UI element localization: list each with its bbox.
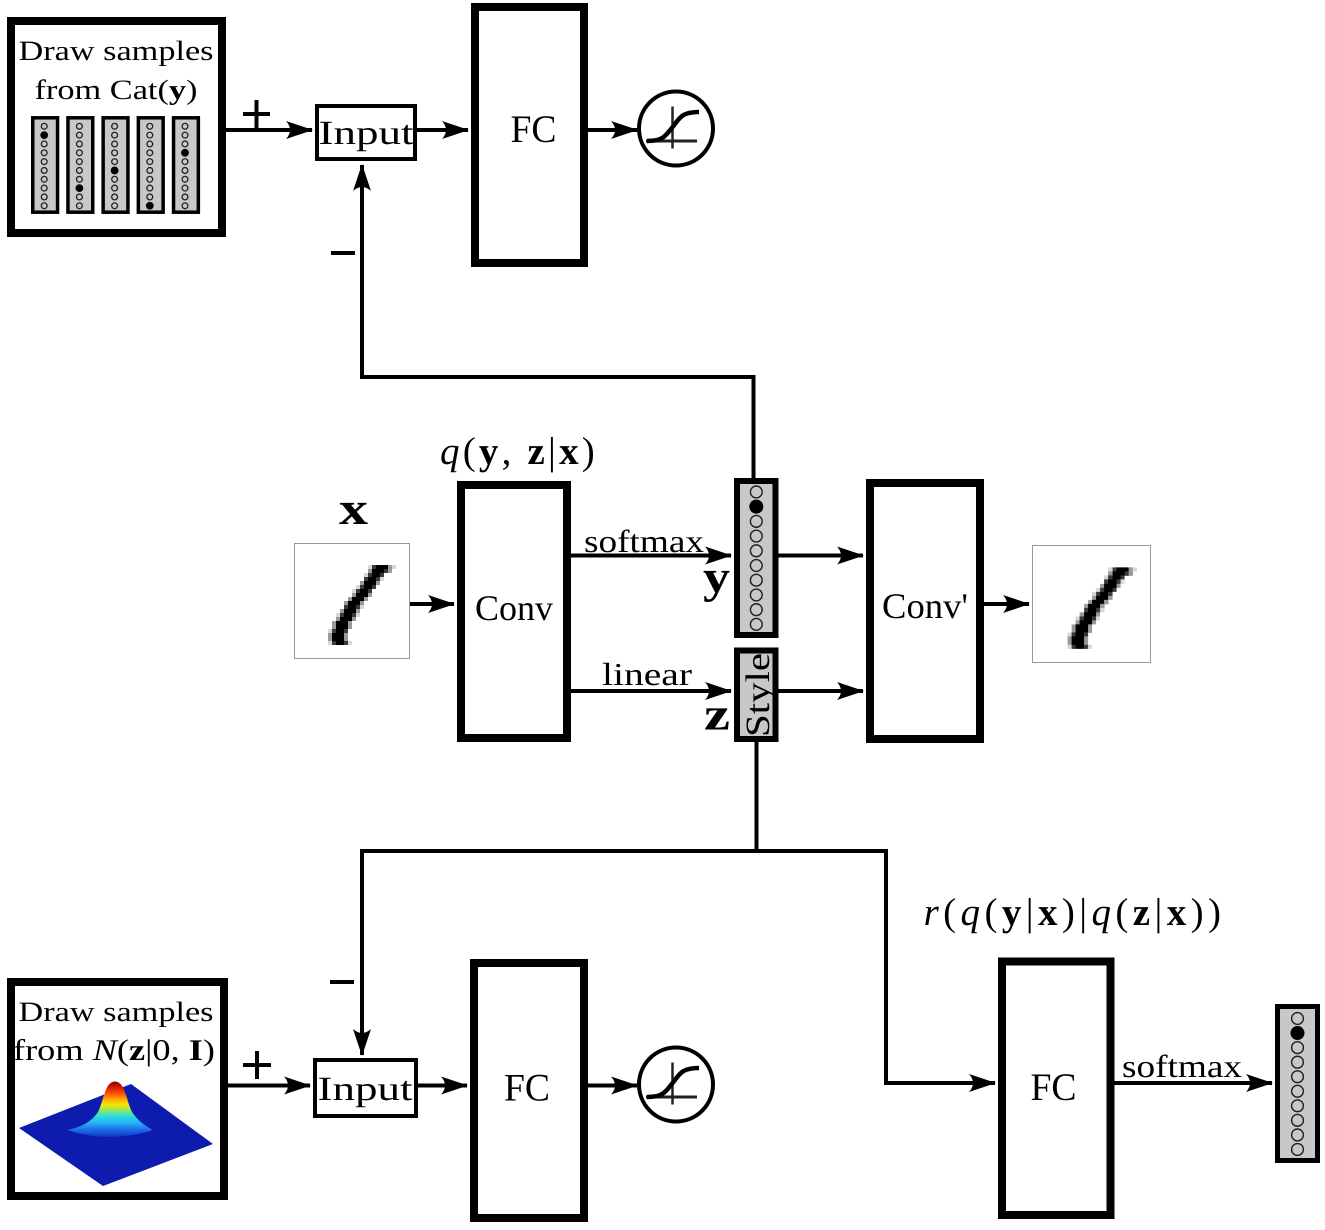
svg-text:FC: FC (504, 1067, 550, 1110)
svg-text:Conv: Conv (475, 588, 553, 628)
svg-text:Conv': Conv' (882, 586, 968, 626)
svg-text:Draw samples: Draw samples (19, 997, 214, 1028)
svg-text:q(y, z|x): q(y, z|x) (440, 430, 598, 473)
svg-text:Draw samples: Draw samples (19, 36, 214, 67)
svg-text:softmax: softmax (1122, 1048, 1242, 1084)
svg-text:r(q(y|x)|q(z|x)): r(q(y|x)|q(z|x)) (924, 891, 1226, 934)
svg-text:from Cat(y): from Cat(y) (35, 75, 198, 106)
svg-text:Input: Input (318, 1071, 414, 1108)
svg-text:Style: Style (740, 653, 777, 737)
svg-text:z: z (704, 689, 730, 740)
svg-text:from N(z|0, I): from N(z|0, I) (13, 1034, 215, 1067)
svg-text:linear: linear (602, 656, 692, 692)
svg-text:FC: FC (511, 108, 557, 151)
svg-text:Input: Input (319, 115, 415, 152)
svg-text:FC: FC (1031, 1066, 1077, 1109)
svg-text:y: y (703, 551, 730, 602)
svg-text:x: x (339, 483, 368, 534)
